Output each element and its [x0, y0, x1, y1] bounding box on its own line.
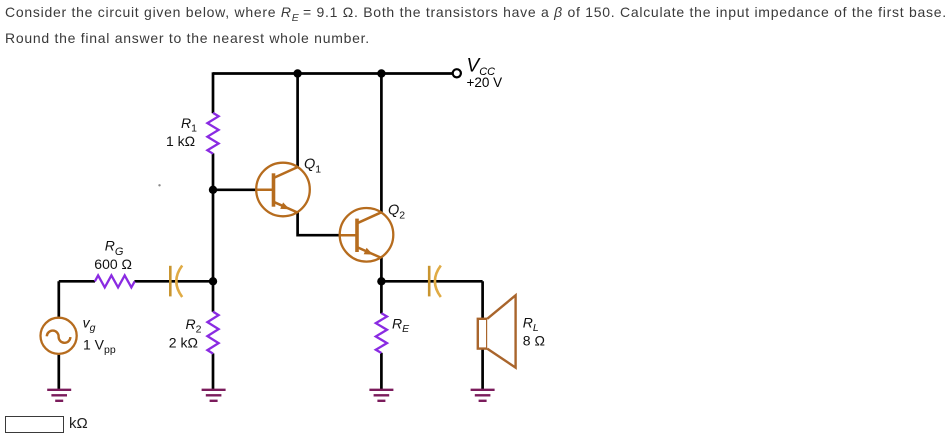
wire: output node to speaker — [381, 281, 482, 390]
svg-text:RE: RE — [392, 315, 410, 335]
svg-text:vg: vg — [83, 314, 96, 334]
wire: RG to divider node — [134, 280, 213, 283]
problem text — [5, 2, 948, 48]
ground (R2) — [202, 390, 226, 401]
capacitor C2 (output coupling) — [429, 266, 441, 298]
ground (speaker) — [471, 390, 495, 401]
wire: Q1 base lead from divider node — [213, 188, 257, 191]
ground (RE) — [369, 390, 393, 401]
svg-text:2 kΩ: 2 kΩ — [169, 335, 198, 351]
svg-text:R1: R1 — [181, 115, 197, 135]
resistor RG — [95, 275, 135, 287]
svg-text:Q2: Q2 — [388, 202, 405, 221]
wire: left vertical above R1 — [212, 72, 215, 113]
wire: Q2 collector to rail — [380, 74, 383, 213]
resistor R2 — [207, 312, 218, 354]
answer box — [5, 416, 64, 433]
svg-text:RG: RG — [105, 238, 124, 259]
wire: Q1 emitter to Q2 base — [298, 212, 340, 235]
node: rail junction at Q2 collector — [377, 69, 385, 77]
resistor R1 — [207, 113, 218, 154]
resistor RE — [376, 313, 387, 353]
node: input coupling junction — [209, 277, 217, 285]
capacitor C1 (input coupling) — [170, 266, 182, 298]
transistor Q2 — [340, 208, 394, 262]
svg-text:RL: RL — [523, 315, 539, 335]
svg-text:1 kΩ: 1 kΩ — [166, 133, 195, 149]
svg-text:8 Ω: 8 Ω — [523, 333, 545, 349]
svg-text:R2: R2 — [186, 316, 202, 336]
source vg — [41, 318, 77, 354]
svg-text:1 Vpp: 1 Vpp — [83, 337, 116, 357]
svg-text:+20 V: +20 V — [467, 75, 503, 90]
wire: Q1 collector to rail — [296, 74, 299, 167]
wire: below RE to ground — [380, 353, 383, 390]
ground (source) — [47, 390, 71, 401]
wire: source to RG input chain — [59, 281, 95, 390]
wire: left vertical below R1 down to R2 top — [212, 153, 215, 311]
svg-text:Q1: Q1 — [304, 157, 321, 176]
wire: Q2 emitter down to RE — [380, 257, 383, 313]
wire: top supply rail — [213, 72, 452, 75]
node: Q1 base / divider junction — [209, 186, 217, 194]
svg-text:600 Ω: 600 Ω — [94, 256, 132, 272]
node: emitter output junction — [377, 277, 385, 285]
speaker RL — [478, 295, 516, 367]
transistor Q1 — [256, 163, 310, 217]
node: rail junction at Q1 collector — [293, 69, 301, 77]
stray dot artifact — [158, 184, 160, 186]
answer unit label — [69, 415, 88, 432]
wire: below R2 to ground — [212, 353, 215, 390]
terminal VCC — [453, 69, 461, 77]
